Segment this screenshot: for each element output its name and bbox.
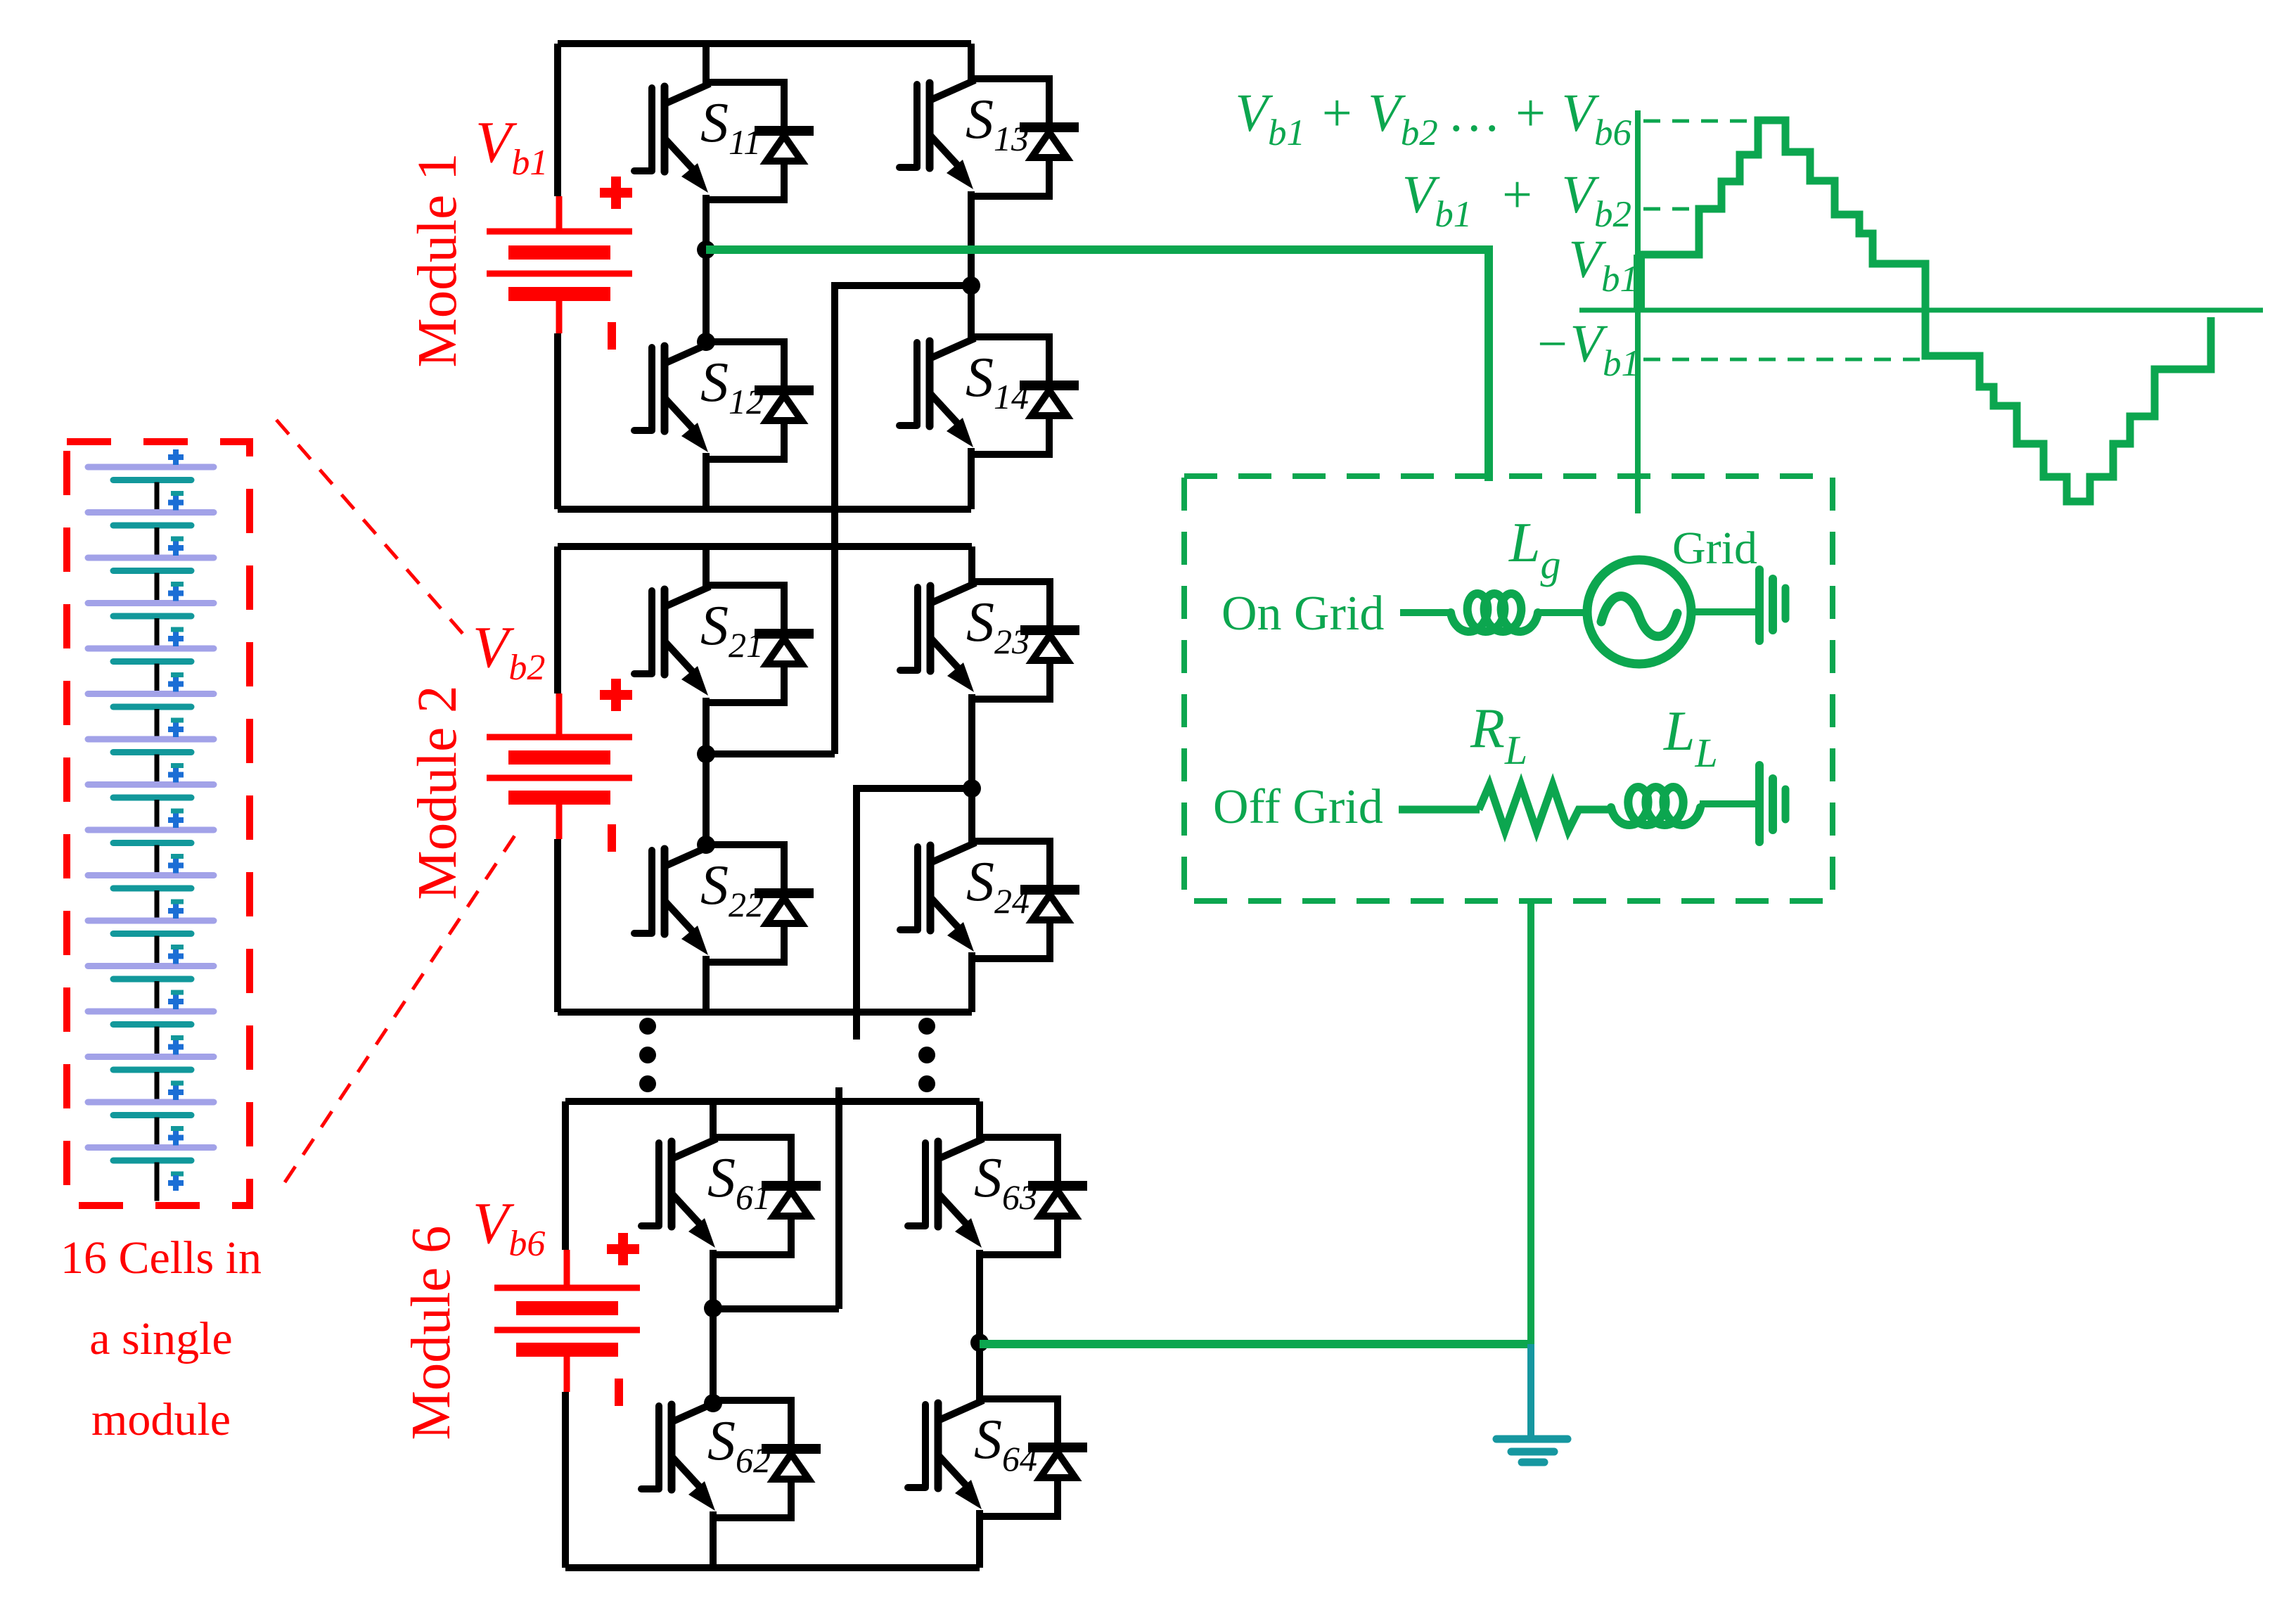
wire: module 6 output to load return (green) — [980, 1340, 1534, 1348]
node: module 1 leg B midpoint — [962, 276, 980, 295]
battery Vb2 minus sign — [608, 824, 616, 852]
wire: load return (green) — [1527, 899, 1534, 1348]
node: module 2 left midpoint — [697, 745, 715, 763]
resistor RL — [1479, 785, 1612, 831]
svg-text:Lg: Lg — [1508, 512, 1561, 587]
AC grid source — [1587, 560, 1691, 664]
node: module 6 left midpoint — [704, 1299, 722, 1317]
battery cell 10 — [88, 857, 214, 921]
svg-text:RL: RL — [1470, 698, 1527, 773]
battery Vb6 minus sign — [615, 1379, 623, 1406]
battery cell 2 — [88, 494, 214, 558]
wire: cascade from module 5 into module 6 left midpoint — [713, 1087, 839, 1309]
svg-text:Vb1 + Vb2 … + Vb6: Vb1 + Vb2 … + Vb6 — [1236, 84, 1632, 153]
svg-text:S13: S13 — [966, 89, 1029, 158]
module 6 bottom rail — [565, 1564, 980, 1571]
svg-text:−Vb1: −Vb1 — [1534, 314, 1640, 384]
wire: module 1 B to module 2 A cascade — [835, 286, 971, 754]
wire: neutral to earth (teal) — [1527, 1344, 1534, 1438]
svg-text:Module 6: Module 6 — [401, 1225, 462, 1440]
IGBT S21 with antiparallel diode — [634, 585, 809, 703]
battery Vb2 plus sign — [600, 679, 632, 711]
module 6 right leg wire — [976, 1101, 983, 1568]
node: module 2 right midpoint — [963, 779, 981, 798]
battery cell 16 — [88, 1129, 214, 1161]
module 2 top rail — [558, 543, 972, 550]
wire: off-grid lead — [1399, 806, 1480, 814]
module 1 right leg wire — [968, 44, 975, 509]
wire: source to grid ground — [1691, 608, 1757, 615]
svg-text:Vb1: Vb1 — [475, 110, 548, 183]
staircase multilevel waveform — [1639, 120, 2211, 501]
IGBT S13 with antiparallel diode — [899, 79, 1074, 196]
bottom stub of cell stack — [157, 1163, 184, 1201]
svg-text:S12: S12 — [700, 352, 764, 421]
wire: on-grid lead — [1400, 609, 1453, 616]
wire: module 1 AC output (green) — [706, 250, 1489, 481]
continuation dots left column — [639, 1018, 656, 1092]
svg-text:S14: S14 — [966, 347, 1029, 416]
battery Vb2 — [487, 693, 632, 839]
module 6 left rail — [562, 1101, 569, 1568]
module 1 top rail — [558, 40, 971, 47]
load ground symbol — [1759, 765, 1785, 842]
svg-text:Vb2: Vb2 — [473, 615, 545, 688]
svg-text:Off Grid: Off Grid — [1213, 780, 1383, 834]
battery cell 13 — [88, 992, 214, 1057]
earth ground symbol (teal) — [1496, 1439, 1567, 1462]
svg-text:S64: S64 — [974, 1409, 1037, 1478]
svg-text:S63: S63 — [974, 1147, 1037, 1217]
svg-text:S61: S61 — [707, 1147, 771, 1217]
dashed leader Vb1+Vb2 level — [1643, 207, 1698, 211]
IGBT S14 with antiparallel diode — [899, 337, 1074, 454]
battery cell 1 — [88, 449, 214, 513]
waveform vertical axis — [1635, 110, 1641, 513]
svg-text:S22: S22 — [700, 855, 764, 924]
module 6 left leg wire — [710, 1101, 717, 1568]
red dashed leader upper — [276, 420, 468, 640]
module 2 right leg wire — [968, 546, 975, 1012]
svg-text:16 Cells in: 16 Cells in — [60, 1232, 262, 1284]
inductor LL — [1611, 787, 1700, 825]
module 2 left leg wire — [703, 546, 710, 1012]
battery cell 8 — [88, 766, 214, 831]
battery cell 3 — [88, 539, 214, 603]
battery Vb6 plus sign — [607, 1233, 639, 1265]
continuation dots right column — [918, 1018, 935, 1092]
battery cell 14 — [88, 1038, 214, 1103]
battery Vb1 — [487, 196, 632, 333]
battery cell 6 — [88, 675, 214, 740]
node: S22 collector junction — [697, 836, 715, 854]
module 1 left leg wire — [703, 44, 710, 509]
IGBT S22 with antiparallel diode — [634, 845, 809, 962]
red dashed leader lower — [285, 829, 519, 1182]
extra-thick start step — [1634, 255, 1645, 309]
module 1 bottom rail — [558, 506, 971, 513]
dashed leader -Vb1 level — [1643, 358, 1924, 362]
wire: module 2 B cascade toward module 3 — [857, 788, 972, 1040]
IGBT S11 with antiparallel diode — [634, 82, 809, 200]
module 6 top rail — [565, 1098, 980, 1105]
svg-text:S11: S11 — [700, 92, 761, 162]
label: 16 Cells in a single module — [60, 1232, 262, 1445]
svg-text:Vb1 + Vb2: Vb1 + Vb2 — [1402, 165, 1631, 235]
battery Vb1 plus sign — [600, 177, 632, 209]
svg-text:module: module — [91, 1394, 231, 1445]
module 2 bottom rail — [558, 1009, 972, 1016]
green dashed load box — [1184, 476, 1833, 901]
wire: cascade into module 2 left midpoint — [706, 750, 835, 757]
IGBT S24 with antiparallel diode — [900, 841, 1075, 959]
svg-text:Module 1: Module 1 — [407, 153, 468, 367]
svg-text:Grid: Grid — [1672, 523, 1757, 574]
node: S62 collector junction — [704, 1394, 722, 1412]
node: S12 collector junction — [697, 333, 715, 351]
node: module 1 output A — [697, 241, 715, 259]
svg-text:S24: S24 — [966, 851, 1030, 921]
battery cell 12 — [88, 947, 214, 1012]
node: module 6 output B — [970, 1334, 989, 1352]
wire: inductor to source — [1537, 609, 1591, 616]
svg-text:Vb6: Vb6 — [473, 1191, 545, 1264]
svg-text:LL: LL — [1663, 701, 1718, 776]
IGBT S63 with antiparallel diode — [908, 1137, 1082, 1255]
IGBT S12 with antiparallel diode — [634, 342, 809, 459]
module 2 left rail — [554, 546, 561, 1012]
IGBT S62 with antiparallel diode — [641, 1400, 816, 1518]
IGBT S23 with antiparallel diode — [900, 582, 1075, 699]
IGBT S64 with antiparallel diode — [908, 1399, 1082, 1516]
battery cell 4 — [88, 584, 214, 649]
wire: inductor LL to load ground — [1700, 800, 1757, 807]
grid ground symbol — [1759, 570, 1785, 641]
svg-text:a single: a single — [89, 1313, 232, 1364]
battery cell 7 — [88, 720, 214, 785]
battery Vb6 — [494, 1250, 640, 1392]
module 1 left rail — [554, 44, 561, 509]
battery cell 11 — [88, 902, 214, 966]
svg-text:Vb1: Vb1 — [1569, 230, 1638, 300]
svg-text:On Grid: On Grid — [1221, 587, 1384, 641]
dashed leader Vb1..Vb6 level — [1643, 120, 1756, 123]
battery cell 5 — [88, 629, 214, 694]
red dashed box: 16-cell module detail — [67, 442, 250, 1206]
inductor Lg — [1451, 594, 1538, 632]
svg-text:S23: S23 — [966, 592, 1030, 661]
svg-text:Module 2: Module 2 — [407, 685, 468, 900]
IGBT S61 with antiparallel diode — [641, 1137, 816, 1255]
battery cell 15 — [88, 1083, 214, 1148]
svg-text:S21: S21 — [700, 595, 764, 665]
svg-text:S62: S62 — [707, 1410, 771, 1480]
waveform horizontal axis — [1579, 308, 2263, 313]
battery cell 9 — [88, 811, 214, 876]
battery Vb1 minus sign — [608, 322, 616, 350]
